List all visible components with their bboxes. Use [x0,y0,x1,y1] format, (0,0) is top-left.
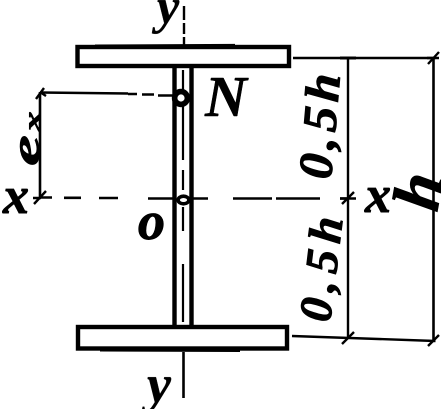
label x (right axis) [364,188,389,212]
dimension 0,5h: arrow tick at bottom end [342,332,354,344]
dimension 0,5h: arrow tick at top end [340,57,356,60]
wire: top extension line for h dimensions [293,57,436,59]
wire: dashed leader line at level of point N [40,93,174,96]
web of I-beam (right edge) [189,64,193,328]
wire: x-axis left dashed (level of centroid o) [40,198,176,199]
wire: dashed centre line inside web [182,70,184,322]
dimension h: arrow tick at bottom end [428,335,439,346]
wire: y-axis top dashed segment [183,6,185,46]
label y (top axis) [152,0,179,34]
label 0,5h (lower half depth, rotated) [301,219,342,320]
dimension h: arrow tick at top end [427,52,439,64]
node o: small circle at centroid [178,196,189,204]
node N: small circle on web [175,92,188,105]
label y (bottom axis) [142,377,172,409]
web of I-beam (left edge) [172,64,176,328]
dimension e_x: top arrow tick [36,88,46,99]
wire: y-axis bottom solid segment [182,352,185,398]
label e_x (eccentricity, rotated) [20,112,40,164]
wire: x-axis right dashed [191,197,348,200]
dimension 0,5h: vertical dimension line [347,58,349,339]
top flange of I-beam [78,45,290,66]
dimension 0,5h: arrow tick at x-axis junction [340,192,356,204]
label N (force point) [205,78,249,116]
bottom flange of I-beam [78,327,287,351]
dimension h: vertical dimension line at right edge [432,58,435,340]
dimension e_x: vertical dimension line [39,92,42,198]
label 0,5h (upper half depth, rotated) [300,76,341,178]
label h (overall depth, rotated) [393,176,441,212]
wire: bottom extension line for h dimensions [292,336,436,341]
label x (left axis) [2,189,27,213]
label o (centroid) [139,214,163,240]
dimension e_x: bottom arrow tick [33,191,46,204]
